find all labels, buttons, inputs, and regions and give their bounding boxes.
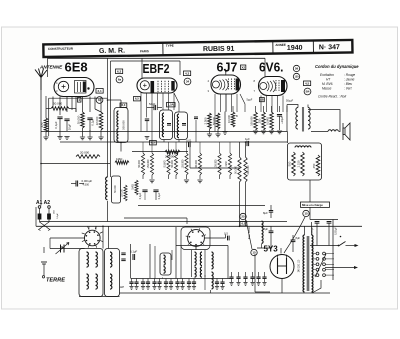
svg-text:1µF: 1µF — [245, 137, 250, 141]
svg-text:B: B — [236, 114, 238, 118]
svg-text:25.000: 25.000 — [121, 189, 124, 197]
svg-text:0,1µF: 0,1µF — [91, 118, 95, 125]
svg-text:50.000: 50.000 — [171, 160, 174, 168]
svg-text:150.000: 150.000 — [147, 159, 150, 168]
svg-text:250: 250 — [258, 118, 262, 123]
svg-text:6,5: 6,5 — [241, 222, 245, 226]
svg-text:0,1µF: 0,1µF — [57, 213, 59, 219]
svg-text:ANTENNE: ANTENNE — [39, 65, 63, 70]
svg-text:Masse: Masse — [322, 87, 332, 91]
svg-text:N· 347: N· 347 — [319, 44, 340, 51]
svg-text:10µF: 10µF — [68, 123, 72, 130]
svg-text:M. BV6.: M. BV6. — [322, 82, 333, 86]
svg-text:100.000: 100.000 — [250, 116, 254, 126]
svg-text:: Jaune: : Jaune — [344, 78, 355, 82]
svg-text:59: 59 — [295, 67, 299, 71]
svg-text:50.000: 50.000 — [212, 116, 216, 124]
svg-text:240 220 110: 240 220 110 — [299, 259, 301, 272]
svg-text:50µµF: 50µµF — [286, 100, 294, 103]
svg-text:0,1µF: 0,1µF — [139, 192, 142, 199]
svg-text:: Rouge: : Rouge — [344, 73, 355, 77]
svg-text:500: 500 — [288, 161, 292, 166]
svg-text:15: 15 — [304, 212, 308, 216]
svg-text:10.000: 10.000 — [227, 114, 231, 122]
svg-text:50.000: 50.000 — [138, 160, 141, 168]
svg-text:50.000: 50.000 — [53, 102, 63, 106]
svg-text:6,3: 6,3 — [121, 103, 125, 107]
svg-text:2.500: 2.500 — [204, 117, 208, 124]
svg-text:TYPE: TYPE — [166, 44, 174, 48]
svg-text:1MΩ: 1MΩ — [116, 157, 123, 161]
svg-text:A1 A2: A1 A2 — [36, 200, 50, 206]
svg-text:6E8: 6E8 — [65, 60, 88, 75]
svg-text:30.000: 30.000 — [195, 160, 198, 168]
svg-text:+10µF: +10µF — [280, 116, 284, 124]
svg-text:PARIS: PARIS — [140, 49, 149, 53]
svg-text:2MΩ: 2MΩ — [225, 161, 228, 166]
svg-text:1MΩ: 1MΩ — [131, 184, 135, 190]
svg-text:G. M. R.: G. M. R. — [99, 48, 125, 55]
svg-text:HP: HP — [120, 285, 124, 289]
svg-text:200.000: 200.000 — [247, 165, 250, 175]
svg-text:Excitation: Excitation — [320, 73, 334, 77]
svg-text:: Vert: : Vert — [344, 87, 352, 91]
svg-text:Contre-React. : Noir: Contre-React. : Noir — [318, 95, 347, 99]
svg-text:0,05µF: 0,05µF — [335, 227, 338, 235]
svg-text:15: 15 — [252, 251, 256, 255]
svg-text:150: 150 — [295, 75, 300, 78]
svg-text:CONSTRUCTEUR: CONSTRUCTEUR — [48, 47, 74, 51]
svg-text:0,5MΩ: 0,5MΩ — [164, 160, 167, 167]
svg-text:8µF: 8µF — [264, 227, 269, 231]
svg-text:6,5: 6,5 — [135, 97, 139, 101]
svg-text:0,1µF: 0,1µF — [158, 192, 161, 199]
svg-text:22.000: 22.000 — [95, 116, 99, 125]
svg-text:EBF2: EBF2 — [143, 62, 170, 76]
svg-text:: Bleu: : Bleu — [344, 82, 352, 86]
svg-text:0,01: 0,01 — [186, 139, 192, 143]
svg-text:470: 470 — [40, 122, 44, 127]
svg-text:6,5: 6,5 — [151, 141, 155, 145]
svg-text:25: 25 — [241, 215, 245, 219]
svg-text:8µF: 8µF — [296, 236, 301, 240]
svg-text:ANNÉE: ANNÉE — [275, 42, 286, 47]
svg-text:4.500: 4.500 — [83, 183, 90, 187]
svg-text:54pF: 54pF — [149, 102, 156, 106]
svg-text:5µµF: 5µµF — [247, 99, 253, 102]
svg-text:500.000: 500.000 — [122, 120, 126, 130]
svg-text:250: 250 — [312, 163, 316, 168]
svg-text:34: 34 — [186, 80, 190, 84]
svg-text:100.000: 100.000 — [215, 159, 218, 168]
svg-text:0,5: 0,5 — [224, 232, 228, 236]
svg-text:0,1µF: 0,1µF — [130, 250, 137, 254]
svg-text:1940: 1940 — [287, 45, 303, 52]
svg-text:0,1µF: 0,1µF — [54, 121, 58, 128]
svg-text:B4: B4 — [306, 90, 310, 94]
svg-text:6J7: 6J7 — [217, 61, 238, 75]
svg-text:0,001µF: 0,001µF — [82, 179, 93, 183]
svg-text:150.000: 150.000 — [182, 159, 185, 168]
svg-text:4,3: 4,3 — [185, 71, 190, 75]
svg-text:50.000: 50.000 — [235, 166, 238, 174]
svg-text:1.310: 1.310 — [297, 160, 301, 167]
svg-text:30.000: 30.000 — [77, 115, 81, 124]
svg-text:TERRE: TERRE — [46, 278, 65, 284]
svg-text:X2: X2 — [241, 65, 245, 69]
svg-text:AB: AB — [260, 97, 264, 101]
svg-text:Cordon du dynamique: Cordon du dynamique — [315, 64, 359, 69]
svg-text:Mise en charge: Mise en charge — [302, 203, 323, 207]
svg-text:20.000: 20.000 — [80, 151, 90, 155]
svg-text:50.000: 50.000 — [114, 185, 117, 193]
svg-text:6a: 6a — [118, 78, 122, 82]
svg-text:8µF: 8µF — [263, 211, 268, 215]
svg-text:6V6.: 6V6. — [259, 61, 284, 75]
svg-text:2,1: 2,1 — [98, 89, 103, 93]
svg-text:RUBIS 91: RUBIS 91 — [203, 46, 235, 53]
svg-text:0,5MΩ: 0,5MΩ — [266, 117, 270, 125]
svg-text:6,3: 6,3 — [117, 69, 122, 73]
svg-text:4,5: 4,5 — [305, 81, 310, 85]
